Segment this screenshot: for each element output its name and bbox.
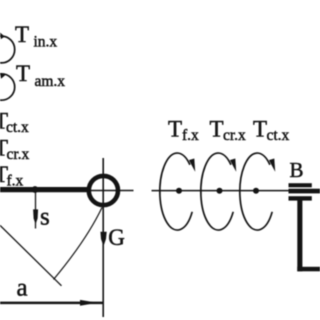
torque loop T_in.x xyxy=(0,33,15,63)
svg-text:cr.x: cr.x xyxy=(7,146,30,163)
svg-text:f.x: f.x xyxy=(182,127,199,144)
node dot 3 on axis xyxy=(253,188,259,194)
svg-text:ct.x: ct.x xyxy=(6,119,29,136)
support B bottom plate xyxy=(289,196,312,200)
svg-text:T: T xyxy=(168,117,182,142)
axis line right segment xyxy=(152,190,289,192)
svg-text:T: T xyxy=(253,117,267,142)
shaft thick line xyxy=(0,187,88,192)
label T_cr.x xyxy=(0,136,30,164)
label T_ct.x right xyxy=(253,117,290,145)
support B post xyxy=(297,200,302,271)
svg-text:G: G xyxy=(108,225,125,250)
svg-text:T: T xyxy=(210,117,224,142)
svg-text:f.x: f.x xyxy=(7,173,24,190)
svg-text:B: B xyxy=(290,158,304,182)
svg-text:am.x: am.x xyxy=(35,73,66,90)
swung rod line xyxy=(0,225,62,285)
support B middle plate xyxy=(289,189,320,194)
label T_cr.x right xyxy=(210,117,247,145)
dimension line a xyxy=(0,300,103,306)
node dot 1 on axis xyxy=(176,188,182,194)
svg-text:ct.x: ct.x xyxy=(267,127,290,144)
torque ellipse T_cr.x xyxy=(201,153,236,230)
torque loop T_am.x xyxy=(0,73,15,100)
label T_am.x xyxy=(16,61,65,90)
torque ellipse T_f.x xyxy=(160,153,195,230)
arrow G xyxy=(100,232,106,247)
svg-text:T: T xyxy=(15,22,29,47)
svg-text:in.x: in.x xyxy=(34,34,58,51)
label T_ct.x xyxy=(0,109,29,137)
label T_in.x xyxy=(15,22,57,51)
pivot circle xyxy=(89,176,118,205)
label T_f.x left xyxy=(0,162,24,190)
torque ellipse T_ct.x xyxy=(240,153,275,230)
arrow s xyxy=(33,192,38,229)
axis line through pivot xyxy=(87,190,134,192)
svg-text:s: s xyxy=(40,204,50,231)
support B top plate xyxy=(289,183,312,187)
svg-text:T: T xyxy=(16,61,30,86)
swing arc xyxy=(54,208,103,280)
svg-text:cr.x: cr.x xyxy=(223,127,246,144)
node dot on shaft xyxy=(32,186,39,193)
svg-text:a: a xyxy=(17,275,28,302)
label T_f.x right xyxy=(168,117,199,145)
support B base xyxy=(297,267,320,272)
vertical axis line xyxy=(102,158,104,317)
node dot 2 on axis xyxy=(217,188,223,194)
